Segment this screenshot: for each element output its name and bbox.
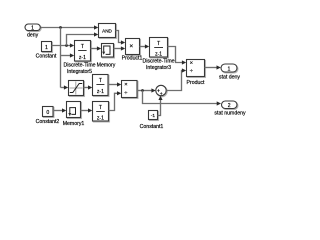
wire saturation to discrete-time integrator mid	[84, 85, 93, 89]
svg-text:×: ×	[124, 82, 127, 88]
wire divide out to sum	[137, 88, 156, 92]
sum block	[156, 85, 166, 97]
svg-text:z-1: z-1	[97, 89, 104, 95]
svg-text:1: 1	[228, 67, 231, 73]
svg-text:Discrete-Time: Discrete-Time	[142, 59, 174, 65]
svg-text:1: 1	[31, 25, 34, 31]
svg-text:Constant1: Constant1	[140, 124, 164, 130]
wire AND to product1 input1	[116, 31, 126, 45]
svg-text:Constant2: Constant2	[36, 119, 60, 125]
wire sum to product input2	[166, 68, 186, 90]
svg-text:AND: AND	[102, 28, 112, 33]
svg-text:stat numdeny: stat numdeny	[214, 110, 246, 116]
svg-text:T: T	[99, 105, 102, 111]
svg-text:×: ×	[129, 43, 133, 50]
wire integrator bottom to divide input2	[109, 91, 122, 110]
svg-text:T: T	[99, 78, 102, 84]
outport 1 stat deny	[219, 64, 240, 80]
svg-text:1: 1	[45, 45, 48, 51]
wire branch up to AND input2	[67, 32, 99, 45]
wire deny to AND input1	[41, 25, 99, 29]
constant block C=1	[36, 42, 57, 60]
svg-text:z-1: z-1	[97, 116, 104, 122]
outport 2 stat numdeny	[214, 101, 246, 116]
saturation block	[69, 81, 84, 96]
wire deny vertical branch	[60, 28, 62, 88]
memory1 block	[63, 102, 85, 128]
svg-text:Memory: Memory	[97, 62, 116, 68]
constant1 block C=-1	[140, 111, 164, 131]
svg-text:Product1: Product1	[122, 56, 143, 62]
discrete-time integrator3 block	[142, 38, 174, 72]
node junction on constant wire	[65, 44, 68, 47]
wire memory1 to discrete-time integrator bottom	[81, 108, 93, 112]
node junction after divide	[141, 89, 144, 92]
discrete-time integrator bottom block (T over z-1)	[93, 102, 109, 122]
svg-text:deny: deny	[27, 33, 39, 39]
divide block x over div	[122, 81, 138, 98]
svg-text:Integrator3: Integrator3	[146, 65, 171, 71]
svg-text:-1: -1	[151, 113, 156, 119]
svg-text:×: ×	[190, 60, 193, 66]
AND logical operator block	[99, 24, 116, 38]
svg-text:stat deny: stat deny	[219, 74, 240, 80]
svg-text:0: 0	[46, 110, 49, 116]
product1 block	[122, 39, 143, 62]
svg-text:z-1: z-1	[155, 52, 162, 58]
wire integrator mid to divide input1	[108, 82, 121, 86]
svg-text:z-1: z-1	[79, 55, 86, 61]
svg-text:Discrete-Time: Discrete-Time	[63, 63, 95, 69]
inport 1 deny	[25, 24, 40, 39]
wire constant to integrator5 input1	[52, 43, 75, 47]
node junction on deny wire	[59, 26, 62, 29]
wire constant2 to memory1	[53, 108, 66, 112]
constant2 block C=0	[36, 107, 60, 126]
svg-text:Product: Product	[187, 80, 205, 86]
wire integrator5 to memory	[91, 46, 102, 50]
svg-text:T: T	[157, 41, 160, 47]
discrete-time integrator5 block	[63, 41, 95, 76]
wire product to outport1	[205, 65, 221, 69]
wire memory to product1 input2	[114, 46, 126, 50]
svg-text:÷: ÷	[190, 68, 193, 74]
svg-text:Memory1: Memory1	[63, 121, 85, 127]
wire branch to integrator5 input2	[61, 53, 75, 57]
product block (x over divide)	[187, 60, 205, 86]
svg-text:Integrator5: Integrator5	[67, 69, 92, 75]
svg-text:2: 2	[228, 103, 231, 109]
svg-text:T: T	[81, 44, 84, 50]
svg-text:Constant: Constant	[36, 54, 57, 60]
wire integrator3 to product input1	[168, 47, 187, 65]
memory block	[97, 44, 116, 69]
wire product1 to integrator3	[140, 44, 150, 48]
wire branch to outport2	[143, 91, 222, 106]
wire branch to saturation input	[61, 85, 69, 89]
discrete-time integrator mid block (T over z-1)	[93, 75, 109, 96]
wire constant1 to sum bottom input	[158, 96, 163, 116]
svg-text:÷: ÷	[124, 90, 127, 96]
